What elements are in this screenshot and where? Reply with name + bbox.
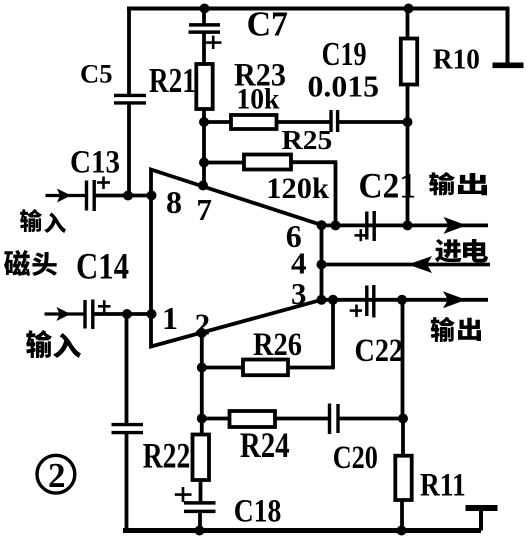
capacitor bypass (left, unlabeled) (112, 425, 144, 433)
pin label 1 (162, 300, 178, 336)
ground top-right (493, 9, 524, 69)
wire bottom rail (123, 528, 481, 533)
label 输出 lower (431, 317, 481, 342)
wire R21 to pin 7 (202, 109, 206, 187)
input arrow lower (45, 307, 86, 321)
capacitor C5 (114, 95, 146, 103)
svg-text:R21: R21 (149, 61, 196, 100)
capacitor C13 (87, 177, 111, 212)
wire R25 to riser (291, 160, 337, 164)
node R24 tap (197, 414, 207, 424)
label C14 (76, 247, 129, 288)
node pin 4 (317, 260, 327, 270)
svg-text:3: 3 (291, 276, 307, 311)
wire C20 junction to R11 (401, 419, 405, 458)
wire pin 4 feed (322, 263, 491, 267)
svg-text:C20: C20 (333, 440, 378, 476)
svg-text:7: 7 (196, 192, 212, 227)
op-amp U1 (151, 170, 322, 347)
svg-text:1: 1 (162, 300, 178, 336)
svg-text:120k: 120k (266, 173, 329, 205)
wire top rail (127, 7, 510, 11)
ground bottom-right (466, 505, 498, 531)
wire top rail to R10 (406, 9, 410, 40)
label R26 (253, 327, 302, 363)
wire left rail upper (127, 7, 131, 96)
label R23 (234, 58, 286, 94)
label R24 (240, 425, 290, 465)
svg-text:C13: C13 (70, 145, 120, 181)
svg-text:R24: R24 (240, 425, 290, 465)
wire R10 to pin6 line (406, 85, 410, 226)
wire R23 to C19 (277, 120, 333, 124)
label R25 (282, 125, 333, 155)
node C14 junction (122, 309, 132, 319)
resistor R25 (244, 155, 291, 170)
wire C18 to bottom rail (198, 511, 202, 531)
wire pin 2 column (200, 333, 204, 435)
node C19/R10 junction (403, 117, 413, 127)
capacitor C21 (355, 211, 375, 241)
label 输出 upper (429, 172, 487, 195)
svg-text:R26: R26 (253, 327, 302, 363)
label 输入 lower (26, 330, 81, 358)
node pin 7 (198, 181, 208, 191)
node C18/bottom rail (195, 526, 205, 536)
wire C20 to R11 column (338, 417, 403, 421)
capacitor C18 (175, 487, 216, 511)
node R11/bottom rail (397, 526, 407, 536)
svg-text:R25: R25 (282, 125, 333, 155)
node top rail C7 (200, 4, 210, 14)
figure number 2 (circled) (37, 455, 75, 495)
label 10k (236, 83, 280, 115)
feed arrow 进电 (408, 256, 432, 273)
wire pin 6 output (322, 223, 489, 227)
node pin 3 (317, 295, 327, 305)
resistor R21 (196, 64, 212, 109)
svg-text:C5: C5 (80, 60, 113, 89)
label C20 (333, 440, 378, 476)
capacitor C14 (85, 300, 111, 330)
output arrow lower (443, 291, 466, 308)
node top rail R10 (404, 4, 414, 14)
wire pin 3 output (322, 298, 489, 302)
wire R24 to C20 (275, 417, 330, 421)
label 0.015 (308, 70, 380, 104)
wire R23 left (204, 120, 232, 124)
wire C19 to R10 column (338, 120, 408, 124)
node C21/R10 junction (403, 220, 413, 230)
label R10 (433, 44, 480, 76)
wire R11 to bottom rail (400, 500, 404, 531)
pin label 3 (291, 276, 307, 311)
label C19 (322, 36, 367, 73)
node C22/R11 junction (397, 295, 407, 305)
svg-text:C7: C7 (247, 5, 288, 44)
node R25/pin6 junction (331, 220, 341, 230)
wire C7 to R21 (202, 31, 206, 65)
node R26 riser junction (328, 295, 338, 305)
label C7 (247, 5, 288, 44)
wire R26 right (288, 366, 335, 370)
pin label 8 (166, 184, 182, 220)
label C22 (355, 333, 404, 369)
svg-text:0.015: 0.015 (308, 70, 380, 104)
resistor R10 (401, 39, 417, 85)
label 120k (266, 173, 329, 205)
label 输入 upper (20, 209, 66, 233)
wire bypass cap to bottom rail (125, 433, 129, 531)
svg-text:R22: R22 (143, 436, 191, 476)
wire C13 to pin 8 (94, 194, 152, 198)
wire top rail to C7 (202, 9, 206, 26)
pin label 4 (291, 246, 307, 281)
wire R25 riser (334, 162, 338, 225)
label C18 (234, 493, 282, 529)
svg-text:R11: R11 (420, 468, 466, 504)
capacitor C19 (331, 110, 338, 132)
wire R22 to C18 (199, 480, 203, 503)
node C20/R11 junction (398, 414, 408, 424)
node C5/C13 junction (123, 191, 133, 201)
resistor R23 (231, 115, 277, 129)
label 磁头 (4, 250, 57, 276)
svg-text:2: 2 (48, 456, 66, 495)
pin label 6 (286, 218, 302, 254)
wire left rail lower (125, 314, 129, 425)
node pin 8 (147, 191, 157, 201)
pin label 2 (195, 306, 211, 341)
label C13 (70, 145, 120, 181)
wire C5 to C13 node (127, 103, 131, 197)
svg-text:8: 8 (166, 184, 182, 220)
wire R25 left (204, 161, 245, 165)
label R11 (420, 468, 466, 504)
svg-text:C19: C19 (322, 36, 367, 73)
input arrow upper (46, 189, 88, 203)
resistor R26 (243, 360, 288, 376)
wire pin3 line to C20 junction (401, 300, 405, 420)
label R21 (149, 61, 196, 100)
svg-text:10k: 10k (236, 83, 280, 115)
node R25 tap (199, 158, 209, 168)
node pin 6 (317, 220, 327, 230)
capacitor C22 (350, 285, 374, 318)
output arrow upper (444, 217, 467, 234)
node pin 2 (197, 328, 207, 338)
label C21 (359, 166, 417, 206)
wire C14 to pin 1 (93, 312, 152, 316)
wire R26 left (202, 366, 244, 370)
svg-text:C18: C18 (234, 493, 282, 529)
resistor R22 (193, 435, 210, 481)
capacitor C20 (330, 404, 339, 435)
svg-text:C14: C14 (76, 247, 129, 288)
node R26 tap (197, 363, 207, 373)
label R22 (143, 436, 191, 476)
label 进电 (435, 239, 488, 263)
resistor R11 (395, 456, 411, 500)
capacitor C7 (189, 25, 222, 49)
svg-text:R10: R10 (433, 44, 480, 76)
label C5 (80, 60, 113, 89)
resistor R24 (230, 411, 276, 427)
node pin 1 (147, 309, 157, 319)
wire R26 riser (331, 300, 335, 368)
node R23 tap (199, 117, 209, 127)
wire R24 left (202, 417, 231, 421)
svg-text:C22: C22 (355, 333, 404, 369)
pin label 7 (196, 192, 212, 227)
